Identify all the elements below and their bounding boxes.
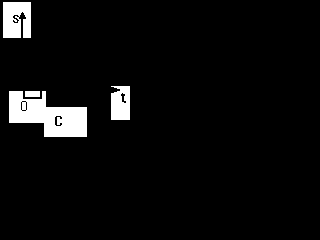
- s-axis arrow shaft: [21, 18, 23, 38]
- s-axis arrowhead (stepped pixel triangle, apex up): [22, 12, 23, 13]
- O label (pixel glyph): [22, 101, 26, 102]
- C state box (white panel): [44, 107, 87, 137]
- s-axis label s (pixel glyph): [14, 15, 18, 16]
- t-axis arrowhead (stepped pixel triangle pointing right): [111, 87, 114, 93]
- t-axis box (right white panel): [111, 86, 130, 120]
- step notch right stub: [40, 91, 42, 99]
- figure frame (black border of plot, invisible on black background): [0, 0, 137, 141]
- step notch bottom line: [23, 97, 42, 99]
- s-axis box (top-left white panel): [3, 2, 31, 38]
- O state box (white panel): [9, 91, 46, 123]
- t-axis label t (pixel glyph): [122, 93, 123, 94]
- step notch left stub: [23, 91, 25, 98]
- C label (pixel glyph): [56, 116, 61, 117]
